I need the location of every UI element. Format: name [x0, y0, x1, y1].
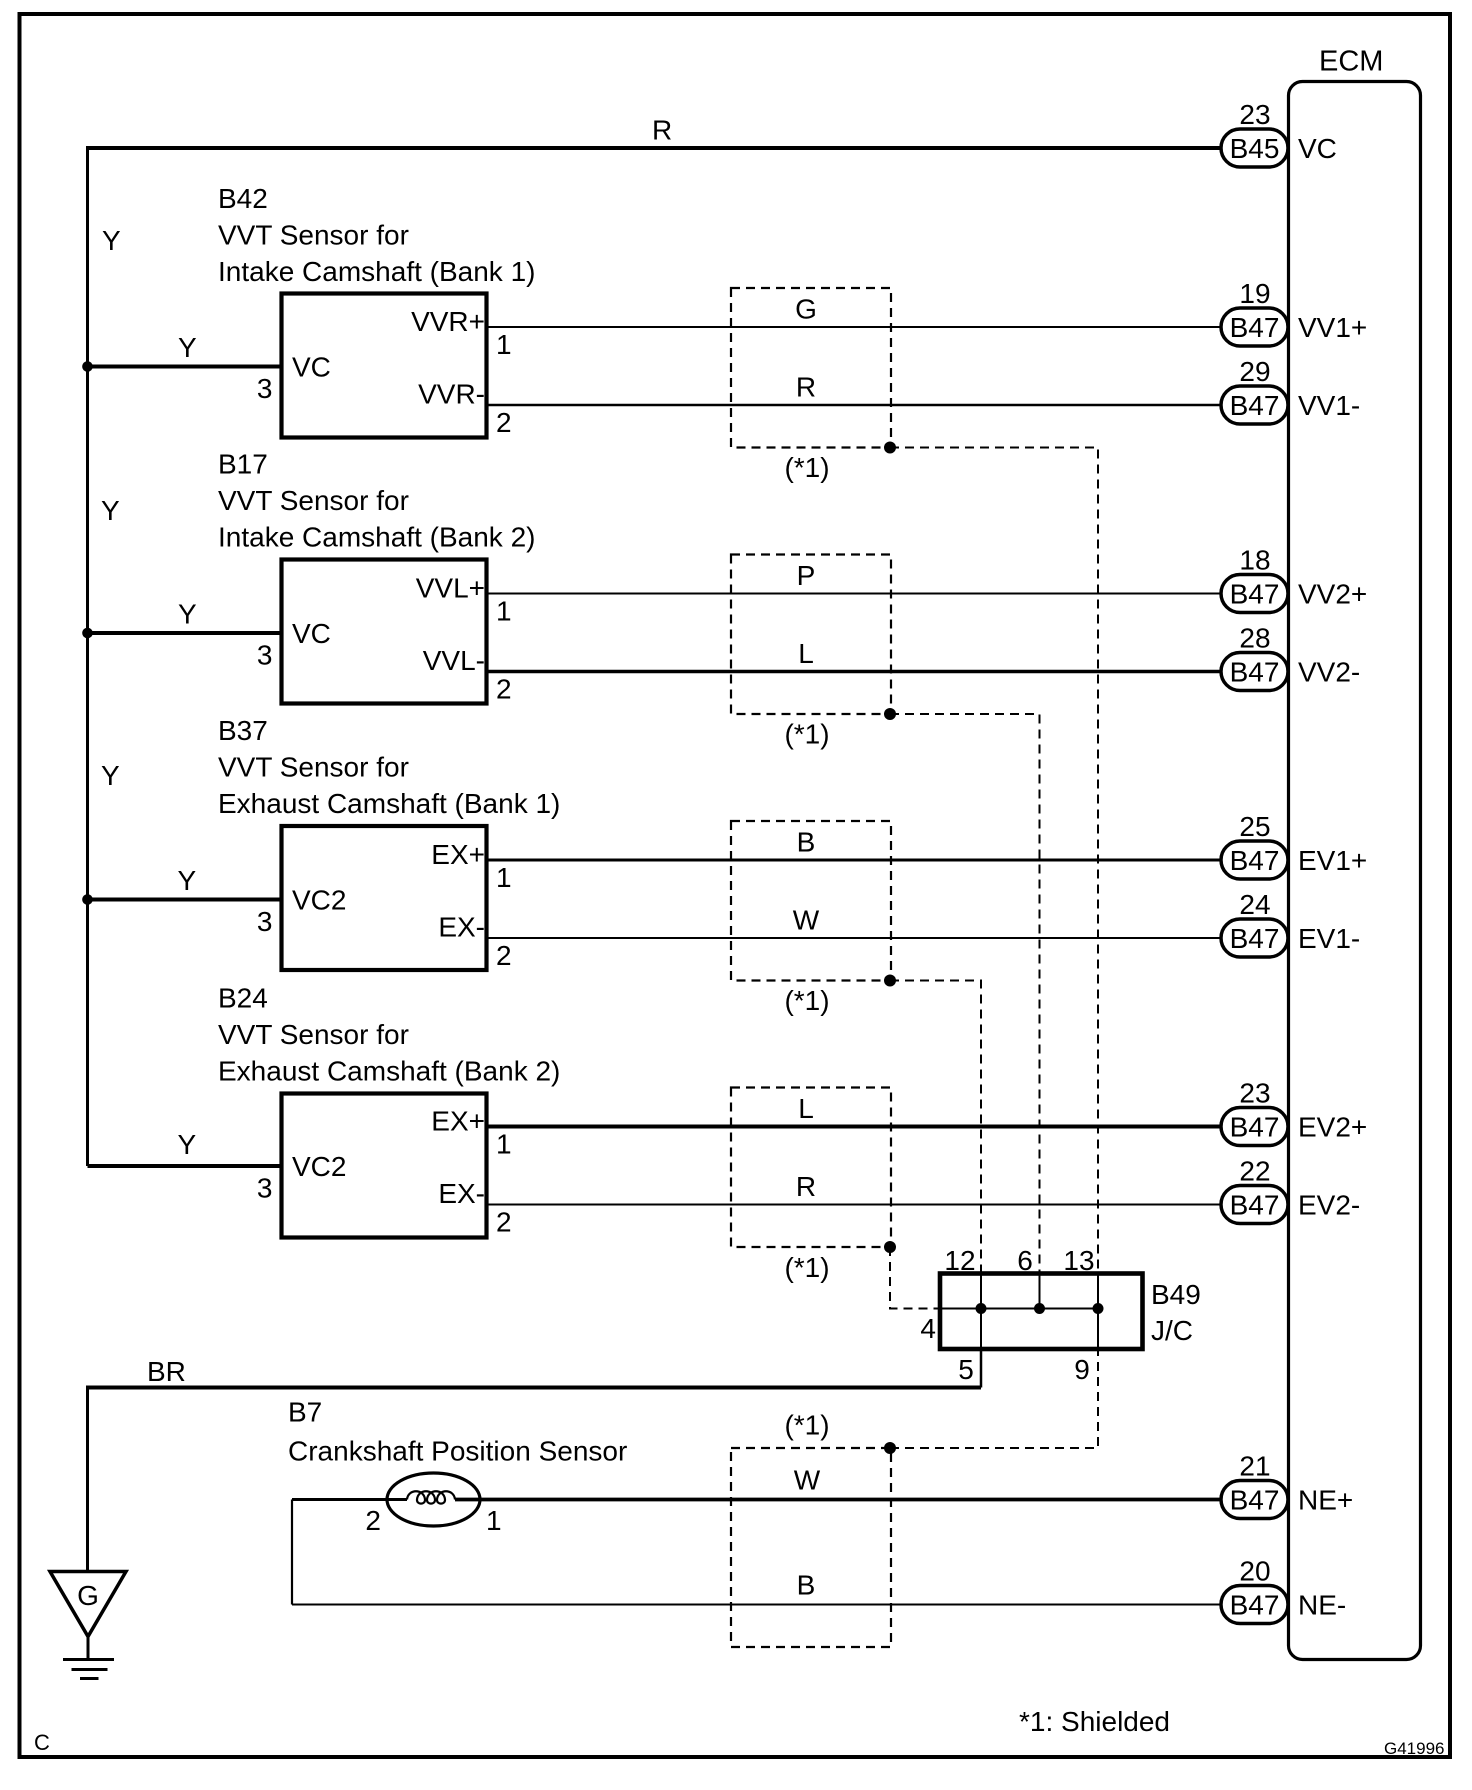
svg-text:R: R [796, 372, 816, 403]
svg-text:Y: Y [178, 1129, 197, 1160]
shield box row 2 [731, 555, 891, 715]
connector oval B47 pin 18 [1221, 545, 1288, 613]
svg-text:B47: B47 [1230, 657, 1280, 688]
svg-text:VC: VC [292, 352, 331, 383]
svg-text:Crankshaft Position Sensor: Crankshaft Position Sensor [288, 1436, 627, 1467]
wire J/C pin 5 down [980, 1349, 983, 1388]
J/C pin dot 13 [1093, 1303, 1104, 1314]
svg-text:EV1-: EV1- [1298, 923, 1360, 954]
wire Y to B17 pin 3 [88, 631, 282, 635]
wire to B7 pin 2 [292, 1498, 407, 1501]
shield drain wire row 3 to J/C pin 12 [890, 981, 981, 1274]
svg-text:1: 1 [486, 1505, 502, 1536]
svg-text:B17: B17 [218, 449, 268, 480]
wire W: B7 pin 1 to NE+ [455, 1498, 1221, 1502]
svg-text:BR: BR [147, 1356, 186, 1387]
svg-text:3: 3 [257, 640, 273, 671]
svg-text:B47: B47 [1230, 1485, 1280, 1516]
svg-text:Y: Y [101, 760, 120, 791]
svg-text:20: 20 [1239, 1556, 1270, 1587]
svg-text:22: 22 [1239, 1156, 1270, 1187]
svg-text:1: 1 [496, 1129, 512, 1160]
shield drain wire row 1 to J/C pin 13 [890, 448, 1098, 1274]
connector oval B47 pin 22 [1221, 1156, 1288, 1224]
svg-text:VV1-: VV1- [1298, 390, 1360, 421]
svg-text:Exhaust Camshaft (Bank 2): Exhaust Camshaft (Bank 2) [218, 1056, 560, 1087]
svg-text:R: R [796, 1171, 816, 1202]
wire L: EX+ to EV2+ [487, 1125, 1222, 1129]
svg-text:B42: B42 [218, 183, 268, 214]
svg-text:C: C [34, 1730, 50, 1755]
svg-text:23: 23 [1239, 1078, 1270, 1109]
connector oval B47 pin 25 [1221, 811, 1288, 879]
svg-text:18: 18 [1239, 545, 1270, 576]
wire Y bus (vertical) [86, 146, 89, 1166]
svg-text:EV2+: EV2+ [1298, 1112, 1367, 1143]
svg-text:VVT Sensor for: VVT Sensor for [218, 485, 409, 516]
wire Y to B37 pin 3 [88, 898, 282, 902]
connector oval B47 pin 19 [1221, 278, 1288, 346]
svg-text:B49: B49 [1151, 1279, 1201, 1310]
svg-text:EV1+: EV1+ [1298, 845, 1367, 876]
svg-text:Y: Y [178, 599, 197, 630]
shield box row 1 [731, 288, 891, 448]
svg-text:NE-: NE- [1298, 1590, 1346, 1621]
svg-text:B47: B47 [1230, 390, 1280, 421]
connector oval B47 pin 24 [1221, 889, 1288, 957]
wire R: EX- to EV2- [487, 1204, 1222, 1206]
svg-text:2: 2 [365, 1505, 381, 1536]
wire B: EX+ to EV1+ [487, 859, 1222, 862]
J/C internal stub pin 12/5 [980, 1274, 982, 1350]
svg-text:24: 24 [1239, 889, 1270, 920]
svg-text:G: G [795, 294, 817, 325]
svg-text:4: 4 [920, 1313, 936, 1344]
shield junction dot crank [884, 1442, 896, 1454]
svg-text:1: 1 [496, 596, 512, 627]
svg-text:VC: VC [292, 618, 331, 649]
svg-text:(*1): (*1) [784, 452, 829, 483]
svg-text:Y: Y [101, 495, 120, 526]
svg-text:VV1+: VV1+ [1298, 312, 1367, 343]
svg-text:2: 2 [496, 1207, 512, 1238]
svg-text:VVT Sensor for: VVT Sensor for [218, 220, 409, 251]
svg-text:(*1): (*1) [784, 985, 829, 1016]
svg-text:2: 2 [496, 674, 512, 705]
svg-text:5: 5 [958, 1354, 974, 1385]
svg-text:B37: B37 [218, 715, 268, 746]
svg-text:Y: Y [178, 332, 197, 363]
svg-text:*1: Shielded: *1: Shielded [1019, 1706, 1170, 1737]
svg-text:VVT Sensor for: VVT Sensor for [218, 1019, 409, 1050]
svg-text:R: R [652, 115, 672, 146]
shield junction dot row 3 [884, 975, 896, 987]
svg-text:B7: B7 [288, 1397, 322, 1428]
svg-text:EV2-: EV2- [1298, 1190, 1360, 1221]
wire B: B7 pin 2 to NE- [292, 1604, 1221, 1606]
svg-text:1: 1 [496, 329, 512, 360]
wire W: EX- to EV1- [487, 937, 1222, 939]
wire Y to B42 pin 3 [88, 365, 282, 369]
svg-text:VVR-: VVR- [418, 379, 485, 410]
shield box row 4 [731, 1088, 891, 1248]
svg-text:VVR+: VVR+ [411, 306, 485, 337]
svg-text:VV2+: VV2+ [1298, 579, 1367, 610]
wire BR: J/C pin 5 to ground bus [88, 1386, 982, 1390]
J/C pin dot 6 [1034, 1303, 1045, 1314]
svg-text:B24: B24 [218, 983, 268, 1014]
shield box crank [731, 1448, 891, 1647]
svg-text:Intake Camshaft (Bank 1): Intake Camshaft (Bank 1) [218, 256, 535, 287]
svg-text:(*1): (*1) [784, 1410, 829, 1441]
shield box row 3 [731, 821, 891, 981]
svg-text:28: 28 [1239, 623, 1270, 654]
svg-text:VV2-: VV2- [1298, 657, 1360, 688]
svg-text:13: 13 [1063, 1245, 1094, 1276]
svg-text:W: W [794, 1465, 821, 1496]
VVT sensor B17 box [282, 560, 487, 704]
svg-text:B47: B47 [1230, 579, 1280, 610]
junction dot (Y bus, row 2) [82, 628, 93, 639]
shield drain wire row 2 to J/C pin 6 [890, 714, 1040, 1274]
svg-text:B47: B47 [1230, 1112, 1280, 1143]
svg-text:29: 29 [1239, 356, 1270, 387]
svg-text:Intake Camshaft (Bank 2): Intake Camshaft (Bank 2) [218, 522, 535, 553]
svg-text:B47: B47 [1230, 1190, 1280, 1221]
svg-text:23: 23 [1239, 99, 1270, 130]
J/C internal bus line [940, 1308, 1098, 1310]
svg-text:W: W [793, 905, 820, 936]
connector oval B47 pin 29 [1221, 356, 1288, 424]
connector oval B47 pin 21 [1221, 1451, 1288, 1519]
wire R (VC supply, top) [86, 146, 1221, 150]
svg-text:VC2: VC2 [292, 1151, 346, 1182]
junction dot (Y bus, row 3) [82, 894, 93, 905]
svg-text:VC: VC [1298, 133, 1337, 164]
svg-text:(*1): (*1) [784, 1252, 829, 1283]
crankshaft position sensor B7 (pickup coil) [387, 1473, 480, 1526]
svg-text:G: G [77, 1580, 99, 1611]
svg-text:EX+: EX+ [431, 1106, 485, 1137]
svg-text:P: P [797, 560, 816, 591]
svg-text:EX-: EX- [438, 912, 485, 943]
J/C internal stub pin 13/9 [1097, 1274, 1099, 1350]
connector oval B47 pin 28 [1221, 623, 1288, 691]
wire L: VVL- to VV2- [487, 670, 1222, 674]
svg-text:L: L [798, 638, 814, 669]
svg-text:VVL-: VVL- [423, 645, 485, 676]
J/C pin dot 12 [976, 1303, 987, 1314]
ECM connector box [1289, 82, 1421, 1660]
svg-text:2: 2 [496, 940, 512, 971]
shield junction dot row 1 [884, 442, 896, 454]
connector oval B47 pin 23 [1221, 1078, 1288, 1146]
VVT sensor B37 box [282, 826, 487, 970]
svg-text:L: L [798, 1093, 814, 1124]
svg-text:VVL+: VVL+ [416, 573, 485, 604]
svg-text:9: 9 [1074, 1354, 1090, 1385]
svg-text:(*1): (*1) [784, 719, 829, 750]
connector oval B47 pin 20 [1221, 1556, 1288, 1624]
junction dot (Y bus, row 1) [82, 361, 93, 372]
svg-text:B47: B47 [1230, 312, 1280, 343]
svg-text:3: 3 [257, 906, 273, 937]
ground symbol [50, 1572, 126, 1679]
svg-text:Y: Y [102, 225, 121, 256]
svg-text:B45: B45 [1230, 133, 1280, 164]
svg-text:25: 25 [1239, 811, 1270, 842]
wire G: VVR+ to VV1+ [487, 326, 1222, 328]
svg-text:21: 21 [1239, 1451, 1270, 1482]
VVT sensor B24 box [282, 1094, 487, 1238]
VVT sensor B42 box [282, 294, 487, 438]
svg-text:1: 1 [496, 862, 512, 893]
svg-text:J/C: J/C [1151, 1315, 1193, 1346]
wire P: VVL+ to VV2+ [487, 593, 1222, 595]
wire R: VVR- to VV1- [487, 404, 1222, 406]
svg-text:VVT Sensor for: VVT Sensor for [218, 752, 409, 783]
svg-text:Exhaust Camshaft (Bank 1): Exhaust Camshaft (Bank 1) [218, 788, 560, 819]
shield drain wire row 4 to J/C pin 4 [890, 1247, 940, 1309]
svg-text:3: 3 [257, 373, 273, 404]
shield drain wire crank to J/C pin 9 [890, 1349, 1098, 1448]
svg-text:B: B [797, 1570, 816, 1601]
svg-text:EX-: EX- [438, 1178, 485, 1209]
J/C internal stub pin 6 [1039, 1274, 1041, 1309]
svg-text:ECM: ECM [1319, 46, 1383, 78]
svg-text:B47: B47 [1230, 845, 1280, 876]
svg-text:EX+: EX+ [431, 839, 485, 870]
wire ground drop [86, 1386, 89, 1572]
wire Y to B24 pin 3 (bus corner) [88, 1164, 282, 1168]
svg-text:Y: Y [178, 865, 197, 896]
svg-text:B: B [797, 827, 816, 858]
svg-text:2: 2 [496, 407, 512, 438]
shield junction dot row 4 [884, 1241, 896, 1253]
svg-text:NE+: NE+ [1298, 1485, 1353, 1516]
svg-text:G41996: G41996 [1384, 1739, 1445, 1758]
svg-text:VC2: VC2 [292, 885, 346, 916]
svg-text:B47: B47 [1230, 923, 1280, 954]
junction connector B49 box [940, 1274, 1143, 1350]
connector oval B45 pin 23 [1221, 99, 1288, 167]
svg-text:B47: B47 [1230, 1590, 1280, 1621]
svg-text:6: 6 [1017, 1245, 1033, 1276]
wire B7 pin 2 drop [291, 1500, 293, 1605]
svg-text:19: 19 [1239, 278, 1270, 309]
svg-text:3: 3 [257, 1173, 273, 1204]
shield junction dot row 2 [884, 708, 896, 720]
svg-text:12: 12 [944, 1245, 975, 1276]
